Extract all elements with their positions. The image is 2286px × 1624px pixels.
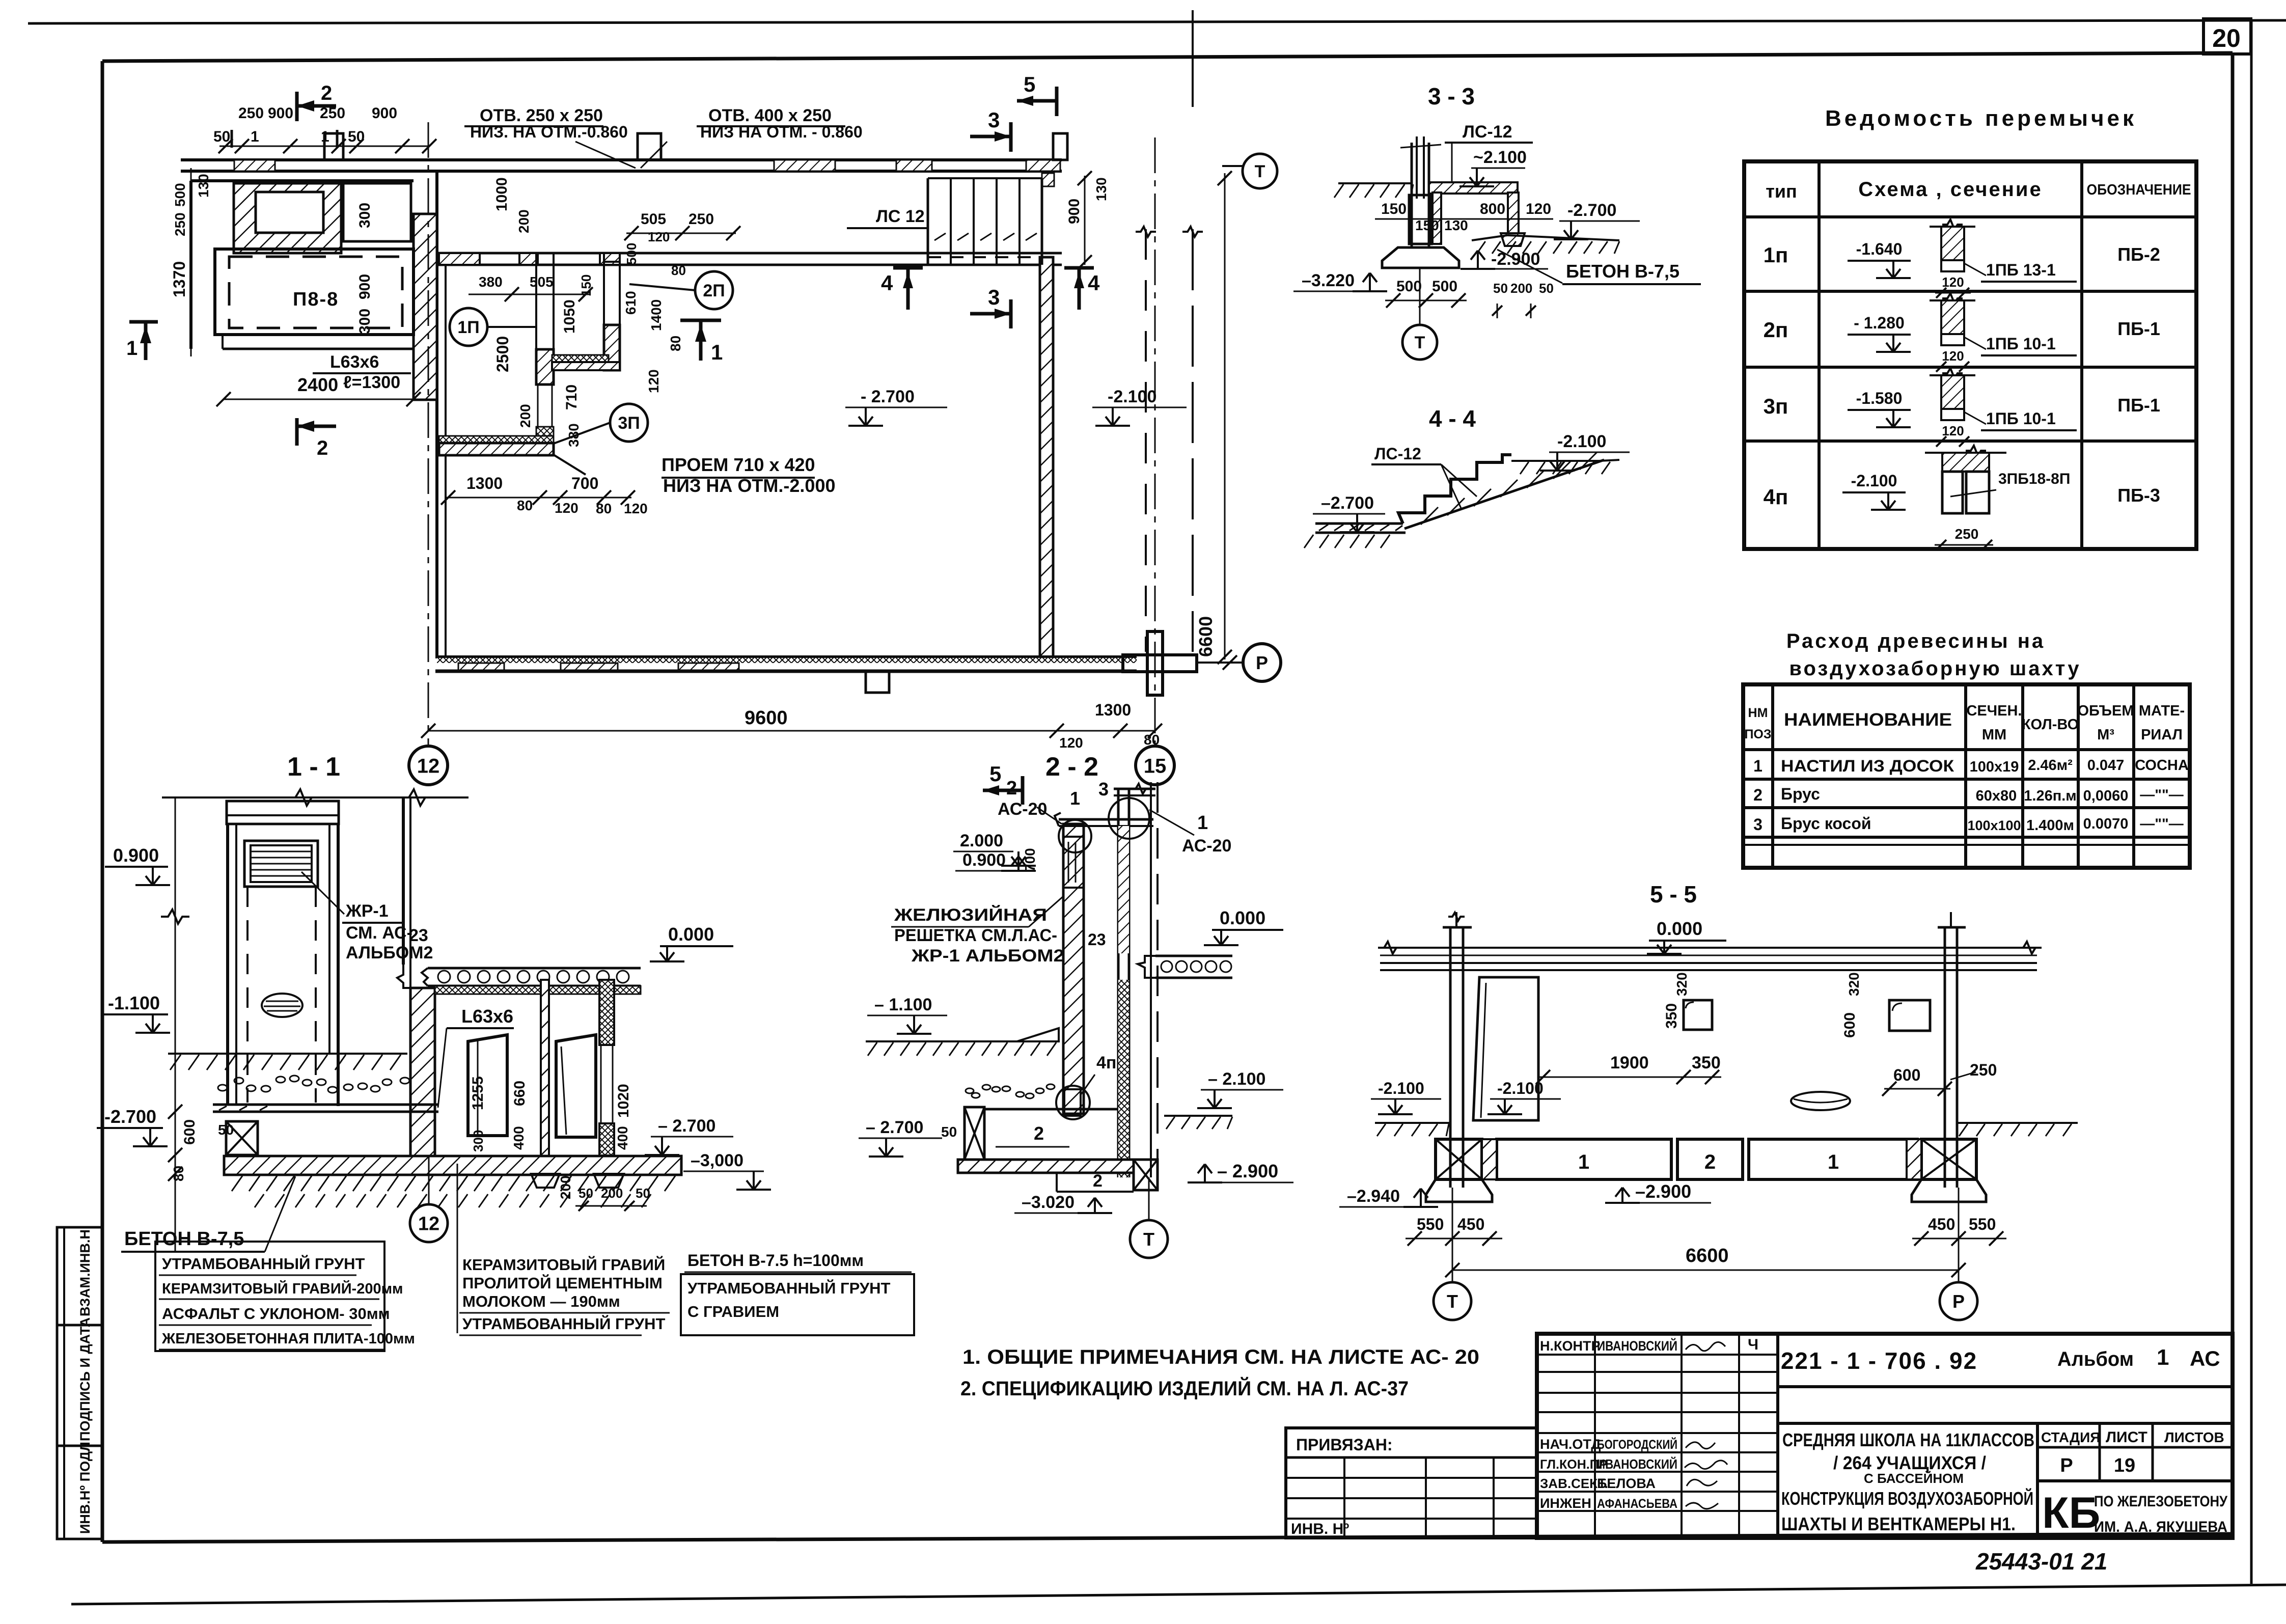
svg-text:610: 610 [623,291,639,315]
svg-text:900: 900 [356,274,373,299]
svg-text:ИНВ. Нº: ИНВ. Нº [1291,1521,1349,1537]
svg-text:320: 320 [1846,972,1862,996]
svg-text:АСФАЛЬТ С УКЛОНОМ- 30мм: АСФАЛЬТ С УКЛОНОМ- 30мм [162,1305,390,1323]
svg-text:–3,000: –3,000 [691,1151,743,1170]
svg-text:-2.100: -2.100 [1557,432,1606,451]
2-2 shaft left wall hatched [1063,824,1084,1114]
svg-text:2: 2 [1006,778,1017,799]
5-5 ground lines [1375,1122,1450,1124]
plan: central hatched pier [414,214,437,400]
svg-text:М³: М³ [2097,727,2114,743]
3-3 ground left [1338,182,1412,184]
2-2 gravel dots [966,1088,974,1093]
svg-text:900: 900 [1066,199,1083,224]
1-1 basement floor line [213,1104,438,1106]
plan: appendage hatched block with window [234,183,341,253]
svg-text:6600: 6600 [1686,1245,1729,1267]
svg-text:Ч: Ч [1748,1336,1758,1353]
svg-text:120: 120 [1526,201,1551,217]
svg-text:380: 380 [479,274,503,290]
svg-text:Р: Р [1952,1291,1965,1312]
svg-text:2: 2 [1093,1171,1103,1191]
svg-text:- 1.280: - 1.280 [1854,314,1905,332]
svg-text:ПОЗ: ПОЗ [1744,727,1771,741]
svg-text:КБ: КБ [2042,1489,2100,1537]
svg-text:АС: АС [2190,1346,2220,1370]
svg-text:-2.100: -2.100 [1851,472,1897,490]
svg-text:200: 200 [516,209,532,233]
plan: section mark 3 top [970,135,1011,139]
svg-text:5 - 5: 5 - 5 [1650,881,1697,907]
svg-text:12: 12 [418,1214,439,1235]
4-4 steps [1398,455,1511,524]
svg-text:300: 300 [356,309,373,334]
title block middle divider [1778,1422,2233,1425]
svg-text:2: 2 [1034,1123,1044,1144]
svg-text:1: 1 [2157,1345,2169,1370]
svg-text:АЛЬБОМ2: АЛЬБОМ2 [346,943,433,962]
svg-text:50: 50 [1539,281,1554,296]
plan: appendage right white cell [343,183,411,241]
svg-text:0.000: 0.000 [1657,918,1702,939]
svg-text:-2.700: -2.700 [1567,201,1616,220]
svg-text:1: 1 [1753,757,1762,775]
svg-text:1: 1 [321,128,329,145]
svg-text:1: 1 [1070,788,1080,809]
4-4 ground below slab [1304,535,1313,548]
svg-text:450: 450 [1457,1215,1484,1233]
3-3 axis T circle bottom [1419,268,1421,324]
title block signature grid [1776,1334,1779,1538]
svg-text:БЕЛОВА: БЕЛОВА [1597,1476,1656,1491]
4-4 ground right [1511,460,1599,462]
2-2 right axis wall line [1150,782,1152,1177]
5-5 small square 1 [1684,1000,1712,1030]
svg-text:УТРАМБОВАННЫЙ ГРУНТ: УТРАМБОВАННЫЙ ГРУНТ [162,1254,365,1273]
4-4 bottom slab [1315,522,1403,525]
svg-text:ШАХТЫ И ВЕНТКАМЕРЫ Н1.: ШАХТЫ И ВЕНТКАМЕРЫ Н1. [1781,1513,2016,1534]
svg-text:1: 1 [126,337,137,360]
svg-text:– 2.900: – 2.900 [1217,1161,1278,1181]
svg-text:900: 900 [268,105,293,122]
svg-text:80: 80 [596,501,612,516]
plan: left appendage outer boundary [191,179,414,182]
svg-text:ПРОЛИТОЙ ЦЕМЕНТНЫМ: ПРОЛИТОЙ ЦЕМЕНТНЫМ [462,1274,663,1292]
svg-text:ЖЕЛЮЗИЙНАЯ: ЖЕЛЮЗИЙНАЯ [894,905,1047,925]
title block top cell [1778,1385,2233,1388]
svg-text:550: 550 [1969,1215,1996,1233]
svg-text:КЕРАМЗИТОВЫЙ ГРАВИЙ-200мм: КЕРАМЗИТОВЫЙ ГРАВИЙ-200мм [162,1280,403,1297]
svg-text:Т: Т [1447,1291,1458,1312]
svg-text:120: 120 [555,500,579,516]
plan: section mark 5 top [1017,99,1057,103]
1-1 X-brace support [226,1121,258,1155]
svg-text:600: 600 [1893,1066,1920,1084]
svg-text:50: 50 [348,128,365,145]
5-5 foundation beam row [1497,1139,1671,1179]
svg-text:УТРАМБОВАННЫЙ ГРУНТ: УТРАМБОВАННЫЙ ГРУНТ [687,1279,891,1297]
svg-text:20: 20 [2212,24,2241,52]
svg-text:1.400м: 1.400м [2026,817,2074,834]
svg-text:60х80: 60х80 [1976,788,2017,804]
1-1 central wall upper [402,797,405,965]
svg-text:4п: 4п [1764,485,1788,509]
svg-text:50: 50 [213,128,230,145]
3-3 slab right hatched [1429,182,1518,194]
svg-text:—ʺʺ—: —ʺʺ— [2140,787,2184,803]
plan: axis P circle [1197,662,1243,664]
svg-text:150: 150 [1415,217,1439,233]
svg-text:0.900: 0.900 [962,850,1006,870]
svg-text:50: 50 [579,1186,593,1201]
svg-text:воздухозаборную шахту: воздухозаборную шахту [1789,657,2081,680]
plan: axis 12 circle [409,746,448,785]
svg-text:МОЛОКОМ — 190мм: МОЛОКОМ — 190мм [462,1292,620,1310]
4-4 leader lines [1441,464,1477,497]
svg-text:Брус: Брус [1781,785,1820,803]
svg-text:2: 2 [321,82,332,104]
svg-text:0,0060: 0,0060 [2083,788,2129,804]
2-2 bottom slab [958,1160,1134,1173]
svg-text:120: 120 [646,369,662,393]
5-5 X-box left [1436,1139,1482,1179]
svg-text:1: 1 [711,340,723,364]
svg-text:ЖР-1: ЖР-1 [345,901,389,921]
2-2 grille zone top [1063,837,1084,888]
svg-text:ПБ-1: ПБ-1 [2117,318,2160,339]
svg-text:5: 5 [1024,72,1035,96]
plan: outer top wall [181,158,1062,161]
plan: shaft right wall [604,253,620,370]
svg-text:2400: 2400 [297,374,338,395]
svg-text:120: 120 [1059,735,1083,751]
svg-text:СТАДИЯ: СТАДИЯ [2041,1429,2100,1445]
svg-text:23: 23 [409,926,428,945]
svg-text:-2.100: -2.100 [1378,1079,1424,1097]
svg-text:АС-20: АС-20 [1182,836,1231,856]
plan: lintel circle 2P [695,271,733,309]
1-1 top grade line [162,796,469,799]
svg-text:150: 150 [1381,201,1407,217]
5-5 pedestal right [1912,1179,1986,1202]
layers text block middle [457,1164,458,1333]
svg-text:L63х6: L63х6 [461,1006,513,1027]
1-1 gravel dots [218,1085,227,1091]
svg-text:ПБ-1: ПБ-1 [2117,395,2160,416]
svg-text:-1.640: -1.640 [1856,240,1903,258]
svg-text:900: 900 [372,105,397,122]
svg-text:ПО ЖЕЛЕЗОБЕТОНУ: ПО ЖЕЛЕЗОБЕТОНУ [2094,1493,2227,1510]
svg-text:1.26п.м: 1.26п.м [2024,788,2076,804]
svg-text:АФАНАСЬЕВА: АФАНАСЬЕВА [1597,1497,1677,1511]
3-3 ground right sloped [1472,235,1507,240]
svg-text:4: 4 [1088,271,1100,295]
svg-text:120: 120 [624,501,648,516]
4-4 slope hatch [1421,507,1438,525]
title block privyazan box [1286,1428,1537,1538]
1-1 axis circle 12 bottom [428,1156,430,1204]
svg-text:– 1.100: – 1.100 [874,995,932,1014]
1-1 wall jog [397,965,410,988]
2-2 slab with voids [1155,955,1232,957]
drawing frame [102,53,2233,61]
svg-text:450: 450 [1928,1215,1955,1233]
svg-text:1ПБ 13-1: 1ПБ 13-1 [1986,261,2056,279]
svg-text:600: 600 [181,1119,198,1145]
svg-text:ПОДПИСЬ И ДАТА: ПОДПИСЬ И ДАТА [77,1317,93,1441]
svg-text:–2.700: –2.700 [1321,493,1374,513]
svg-text:12: 12 [417,755,440,777]
3-3 shaft pipe [1411,143,1413,247]
plan: left wall of room [435,171,438,657]
plan: shaft upper chamber bottom band [552,355,609,362]
svg-text:ЛИСТОВ: ЛИСТОВ [2164,1429,2224,1445]
5-5 pedestal left [1426,1179,1492,1202]
svg-text:L63х6: L63х6 [330,352,379,372]
svg-text:Т: Т [1143,1229,1154,1250]
svg-text:1: 1 [1578,1151,1589,1173]
plan: lintel circle 1P [450,308,487,346]
1-1 foundation pits [531,1174,560,1188]
2-2 X-box right [1134,1160,1158,1190]
plan: right wall of room hatched [1040,257,1053,657]
svg-text:Ведомость перемычек: Ведомость перемычек [1825,106,2137,131]
1-1 dashed inner lines [246,887,249,1103]
svg-text:ИВАНОВСКИЙ: ИВАНОВСКИЙ [1597,1338,1677,1354]
plan: section mark 5 bottom [983,789,1023,792]
svg-text:320: 320 [1674,972,1690,996]
svg-text:221 - 1 - 706 . 92: 221 - 1 - 706 . 92 [1781,1347,1977,1374]
svg-text:710: 710 [563,384,580,410]
1-1 left dim line [175,797,176,1253]
page top edge [28,20,2286,23]
1-1 oval hole [262,994,302,1017]
plan: shaft bottom band [439,436,554,443]
svg-text:250: 250 [172,212,188,236]
plan: section mark 3 bottom [970,312,1011,316]
svg-text:1ПБ 10-1: 1ПБ 10-1 [1986,409,2056,428]
5-5 left column [1449,927,1452,1188]
svg-text:ПБ-3: ПБ-3 [2117,485,2160,506]
svg-text:300: 300 [356,203,373,228]
plan: section mark 1 left [129,320,158,324]
2-2 right wall [1117,789,1120,1177]
svg-text:- 2.700: - 2.700 [861,387,915,406]
plan: section mark 2 top [295,92,299,121]
svg-text:50: 50 [1493,281,1508,296]
svg-text:-2.100: -2.100 [1108,387,1156,406]
1-1 inner walls below slab [541,980,549,1171]
svg-text:3: 3 [1098,779,1109,800]
svg-text:П8-8: П8-8 [293,289,339,310]
svg-text:ПРИВЯЗАН:: ПРИВЯЗАН: [1296,1436,1393,1454]
svg-text:ЛС 12: ЛС 12 [876,207,925,226]
layers text block left [155,1242,384,1351]
svg-text:Брус косой: Брус косой [1781,814,1871,833]
plan: lintel circle 3P [610,404,648,442]
svg-text:400: 400 [511,1126,527,1150]
svg-text:КЕРАМЗИТОВЫЙ ГРАВИЙ: КЕРАМЗИТОВЫЙ ГРАВИЙ [462,1255,665,1274]
svg-text:100х100: 100х100 [1967,818,2021,833]
svg-text:НАИМЕНОВАНИЕ: НАИМЕНОВАНИЕ [1784,710,1952,730]
svg-text:КОЛ-ВО: КОЛ-ВО [2022,717,2079,733]
svg-text:НАЧ.ОТД: НАЧ.ОТД [1540,1437,1601,1452]
1-1 ground below slab [232,1176,242,1191]
svg-text:ЛС-12: ЛС-12 [1463,122,1512,142]
svg-text:~2.100: ~2.100 [1473,148,1527,167]
svg-text:Альбом: Альбом [2057,1348,2134,1370]
svg-text:4 - 4: 4 - 4 [1429,405,1476,432]
svg-text:200: 200 [517,404,533,428]
plan: plate bottom skirt [215,334,414,336]
1-1 white posts L63x6 [468,1035,507,1136]
svg-text:—ʺʺ—: —ʺʺ— [2140,816,2184,832]
svg-text:3ПБ18-8П: 3ПБ18-8П [1998,471,2070,487]
svg-text:–2.900: –2.900 [1635,1181,1691,1202]
lintel table frame [1744,161,2196,549]
svg-text:ВЗАМ.ИНВ.Н: ВЗАМ.ИНВ.Н [77,1229,93,1316]
5-5 top beam lines [1380,947,2037,949]
svg-text:ПБ-2: ПБ-2 [2117,244,2160,265]
wood table frame [1743,684,2190,868]
svg-text:СЕЧЕН.: СЕЧЕН. [1966,703,2022,719]
svg-text:0.000: 0.000 [668,924,714,945]
svg-text:80: 80 [517,498,533,513]
5-5 center blob [1791,1092,1850,1110]
svg-text:1300: 1300 [466,474,503,492]
svg-text:100х19: 100х19 [1970,759,2019,775]
svg-text:1900: 1900 [1610,1053,1649,1072]
plan: inner top wall of room [437,252,1062,255]
plan: section mark 4 right [1064,266,1094,270]
plan: 6600 vertical dim [1224,173,1226,659]
svg-text:БЕТОН В-7,5: БЕТОН В-7,5 [1566,261,1679,282]
svg-text:4: 4 [881,271,893,295]
svg-text:-2.100: -2.100 [1497,1079,1544,1097]
svg-text:500: 500 [1432,278,1457,295]
svg-text:2500: 2500 [493,336,512,372]
3-3 right wall hatched [1508,192,1519,233]
svg-text:130: 130 [1093,177,1109,201]
svg-text:1400: 1400 [648,299,664,331]
svg-text:1п: 1п [1764,243,1788,267]
3-3 axis T circle left [1243,154,1277,188]
svg-text:500: 500 [1396,278,1422,295]
svg-text:505: 505 [530,274,554,290]
plan: stair LS12 [927,178,929,265]
svg-text:С БАССЕЙНОМ: С БАССЕЙНОМ [1864,1471,1964,1486]
1-1 bottom slab hatched [224,1156,681,1175]
svg-text:2.000: 2.000 [960,831,1003,850]
page right edge [2250,20,2253,1584]
svg-text:2. СПЕЦИФИКАЦИЮ ИЗДЕЛИЙ СМ.: 2. СПЕЦИФИКАЦИЮ ИЗДЕЛИЙ СМ. НА Л. АС-37 [960,1377,1409,1400]
page bottom edge [71,1585,2286,1604]
svg-text:–2.940: –2.940 [1347,1187,1400,1206]
svg-text:50: 50 [636,1186,650,1201]
plan: stub below bottom wall [866,671,889,693]
svg-text:БЕТОН В-7,5: БЕТОН В-7,5 [124,1228,244,1250]
svg-text:1. ОБЩИЕ ПРИМЕЧАНИЯ СМ.: 1. ОБЩИЕ ПРИМЕЧАНИЯ СМ. НА ЛИСТЕ АС- 20 [962,1346,1479,1368]
svg-text:ММ: ММ [1982,727,2006,743]
svg-text:-1.580: -1.580 [1856,389,1903,407]
svg-text:3п: 3п [1764,394,1788,418]
svg-text:300: 300 [471,1130,486,1152]
stadia list grid [2036,1423,2039,1538]
svg-text:19: 19 [2114,1455,2135,1476]
plan: section mark 4 left [893,266,923,270]
svg-text:3 - 3: 3 - 3 [1428,83,1475,109]
svg-text:700: 700 [571,474,598,492]
svg-text:250: 250 [688,211,714,228]
plan: wall stubs above top wall [324,133,343,160]
plan: axis 15 circle [1136,746,1174,785]
plan: shaft corner block [536,427,554,455]
svg-text:БЕТОН В-7.5 h=100мм: БЕТОН В-7.5 h=100мм [687,1251,864,1270]
svg-text:1255: 1255 [470,1076,486,1110]
4-4 stringer slope [1404,460,1604,529]
svg-text:РИАЛ: РИАЛ [2141,727,2183,743]
svg-text:2: 2 [1704,1151,1716,1173]
svg-text:3: 3 [1753,815,1762,834]
svg-text:3: 3 [988,108,1000,132]
svg-text:ИНЖЕН: ИНЖЕН [1540,1496,1591,1511]
svg-text:УТРАМБОВАННЫЙ ГРУНТ: УТРАМБОВАННЫЙ ГРУНТ [462,1314,666,1333]
svg-text:КОНСТРУКЦИЯ ВОЗДУХОЗАБОРНОЙ: КОНСТРУКЦИЯ ВОЗДУХОЗАБОРНОЙ [1781,1488,2033,1509]
svg-text:15: 15 [1144,755,1167,777]
svg-text:-2.700: -2.700 [104,1106,156,1127]
svg-text:0.000: 0.000 [1220,907,1265,928]
svg-text:1: 1 [251,128,259,145]
svg-text:2П: 2П [703,281,725,300]
svg-text:– 2.700: – 2.700 [658,1116,715,1136]
plan: bottom wall [435,655,1137,658]
svg-text:тип: тип [1766,181,1797,202]
svg-text:9600: 9600 [745,707,788,729]
svg-text:МАТЕ-: МАТЕ- [2139,703,2185,719]
svg-text:400: 400 [615,1126,630,1150]
svg-text:800: 800 [1480,201,1505,217]
svg-text:1ПБ 10-1: 1ПБ 10-1 [1986,335,2056,353]
svg-text:150: 150 [579,274,594,296]
svg-text:80: 80 [671,263,686,278]
svg-text:1: 1 [1197,812,1208,834]
svg-text:ЛИСТ: ЛИСТ [2106,1429,2147,1446]
svg-text:НМ: НМ [1748,706,1768,720]
svg-text:Р: Р [1256,652,1268,673]
svg-text:5: 5 [989,762,1001,786]
plan: axis cross T/15 intersection [1147,631,1163,695]
svg-text:Т: Т [1255,162,1265,181]
svg-text:ИМ. А.А. ЯКУШЕВА: ИМ. А.А. ЯКУШЕВА [2094,1519,2227,1535]
svg-text:700: 700 [1022,848,1038,872]
left info column [57,1227,102,1539]
svg-text:ИНВ.Нº ПОДЛ: ИНВ.Нº ПОДЛ [77,1442,93,1534]
svg-text:/ 264 УЧАЩИХСЯ /: / 264 УЧАЩИХСЯ / [1833,1452,1986,1473]
svg-text:–3.020: –3.020 [1022,1193,1075,1212]
svg-text:23: 23 [1088,930,1106,949]
svg-text:600: 600 [1841,1012,1858,1038]
svg-text:350: 350 [1692,1053,1721,1072]
svg-text:1: 1 [1828,1151,1839,1173]
svg-text:С ГРАВИЕМ: С ГРАВИЕМ [687,1303,779,1320]
5-5 small square 2 [1889,1000,1930,1031]
plan: shaft opening lines [537,384,539,427]
svg-text:250: 250 [1955,526,1979,542]
svg-text:Н.КОНТР: Н.КОНТР [1540,1338,1600,1354]
plan: section mark 2 bottom [295,418,299,446]
svg-text:– 2.100: – 2.100 [1208,1069,1265,1089]
svg-text:0.0070: 0.0070 [2083,816,2129,832]
